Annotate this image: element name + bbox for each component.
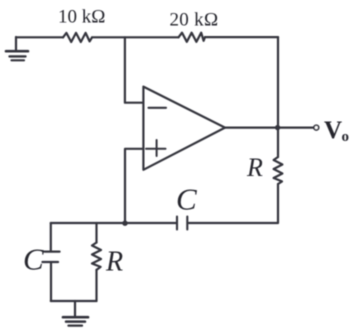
svg-text:20 kΩ: 20 kΩ [170, 10, 219, 31]
svg-text:10 kΩ: 10 kΩ [58, 6, 105, 27]
resistor R2 20 kOhm [179, 33, 205, 42]
minus label [149, 107, 167, 109]
capacitor C (bottom) plates [177, 217, 187, 230]
noninverting input wire [125, 149, 143, 223]
svg-text:C: C [23, 242, 44, 277]
ground (bottom) [63, 301, 88, 326]
wire cap to node D and left branch [51, 222, 176, 224]
wire ground to R1 [16, 36, 63, 38]
output wire [225, 126, 314, 128]
junction dot node D [122, 221, 127, 226]
resistor R (right) [274, 157, 283, 184]
resistor R (bottom) branch [95, 223, 97, 243]
junction dot node B (output) [275, 125, 280, 130]
svg-text:V: V [324, 117, 342, 144]
node A to inverting input wire [125, 37, 143, 102]
svg-text:o: o [342, 129, 350, 145]
wire R to bottom-right corner [189, 184, 279, 223]
ground (top-left) [6, 37, 28, 60]
wire R2 to top-right corner [205, 36, 278, 38]
svg-text:R: R [105, 247, 123, 278]
wire right vertical (feedback) [277, 37, 279, 157]
plus label [146, 140, 166, 156]
wire R1 to node A and R2 [92, 36, 179, 38]
bottom wire [51, 300, 97, 302]
capacitor C (left) branch [50, 223, 52, 250]
svg-text:C: C [176, 182, 197, 217]
resistor R1 10 kOhm [63, 33, 92, 42]
output terminal circle [314, 125, 319, 130]
op-amp U1 [143, 87, 225, 170]
svg-text:R: R [246, 153, 263, 182]
